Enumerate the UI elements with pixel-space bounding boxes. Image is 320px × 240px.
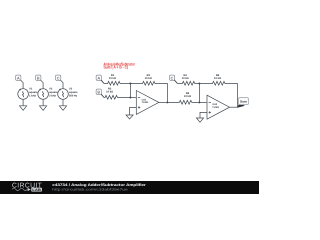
node C flag (second stage) <box>169 75 174 80</box>
feedback resistor R6 <box>199 81 237 107</box>
svg-text:OA1: OA1 <box>142 98 147 101</box>
junction dot R4/R6 <box>198 83 200 85</box>
wire node B to V2 <box>41 80 44 89</box>
svg-text:http://circuitlab.com/c33abf39: http://circuitlab.com/c33abf39e7ue <box>52 187 128 191</box>
ground (V2) <box>40 106 47 111</box>
wire to OA2 inverting input <box>199 101 207 103</box>
ground (OA2) <box>196 118 203 122</box>
svg-text:e43734 / Analog Adder/Subtract: e43734 / Analog Adder/Subtractor Amplifi… <box>52 183 146 187</box>
node B flag (summing network) <box>96 89 101 94</box>
junction dot R5/OA2 <box>198 101 200 103</box>
svg-text:A: A <box>97 76 100 80</box>
svg-text:10 kΩ: 10 kΩ <box>106 90 113 93</box>
V2 source circle <box>38 89 49 100</box>
svg-text:OA2: OA2 <box>212 103 217 106</box>
wire OA2 output <box>230 106 238 108</box>
CircuitLab logo <box>12 183 43 192</box>
svg-text:500 Hz: 500 Hz <box>69 95 78 98</box>
wire node B to R2 <box>101 94 104 97</box>
resistor R5 <box>167 100 199 104</box>
V1 source circle <box>18 89 29 100</box>
ground (V1) <box>20 106 27 111</box>
second summing column <box>198 84 200 103</box>
wire OA1 non-inverting input to ground <box>130 107 137 115</box>
output flag Sum <box>237 98 249 108</box>
wire node C to V3 <box>61 80 64 89</box>
V2 label <box>49 88 58 98</box>
annotation red text <box>104 61 136 69</box>
svg-text:Sum: Sum <box>240 99 247 103</box>
ground (OA1) <box>126 115 133 119</box>
resistor R1 <box>104 81 130 85</box>
voltage source V2 <box>36 75 59 110</box>
wire node A to V1 <box>21 80 24 89</box>
wire OA1 output <box>159 101 168 103</box>
svg-text:2 kHz: 2 kHz <box>49 95 56 98</box>
svg-text:10 kΩ: 10 kΩ <box>214 77 221 80</box>
V3 label <box>69 88 78 98</box>
svg-text:10 kΩ: 10 kΩ <box>109 77 116 80</box>
svg-text:LAB: LAB <box>32 188 41 192</box>
svg-text:10 kΩ: 10 kΩ <box>145 77 152 80</box>
junction dot OA1 output <box>166 101 168 103</box>
op-amp OA2 TL081 <box>207 95 230 119</box>
V3 source circle <box>58 89 69 100</box>
wire node A to R1 <box>101 80 104 83</box>
svg-text:Sum ( A + B - C): Sum ( A + B - C) <box>104 65 129 70</box>
svg-text:1 kHz: 1 kHz <box>29 95 36 98</box>
wire node C to R4 <box>174 80 177 83</box>
svg-text:B: B <box>97 90 100 94</box>
svg-text:C: C <box>57 76 60 80</box>
wire V3 to ground <box>62 99 64 106</box>
node A flag (source 1) <box>16 75 21 80</box>
svg-text:TL081: TL081 <box>142 101 149 104</box>
node C flag (source 3) <box>56 75 61 80</box>
voltage source V1 <box>16 75 39 110</box>
feedback resistor R3 <box>130 81 167 102</box>
resistor R4 <box>178 81 200 85</box>
summing junction column <box>129 84 131 98</box>
svg-text:B: B <box>37 76 40 80</box>
wire V1 to ground <box>22 99 24 106</box>
svg-text:10 kΩ: 10 kΩ <box>184 95 191 98</box>
V1 label <box>29 88 38 98</box>
junction dot row A <box>129 83 131 85</box>
resistor R2 <box>104 95 130 99</box>
ground (V3) <box>59 106 66 111</box>
node B flag (source 2) <box>36 75 41 80</box>
svg-text:10 kΩ: 10 kΩ <box>182 77 189 80</box>
svg-text:TL081: TL081 <box>212 106 219 109</box>
node A flag (summing network) <box>96 75 101 80</box>
footer bar <box>0 181 259 194</box>
wire V2 to ground <box>42 99 44 106</box>
junction dot row B <box>129 97 131 99</box>
op-amp OA1 TL081 <box>136 91 159 115</box>
wire to OA1 inverting input <box>130 97 136 99</box>
svg-text:A: A <box>17 76 20 80</box>
wire OA2 non-inverting input to ground <box>200 112 207 118</box>
voltage source V3 <box>56 75 79 110</box>
svg-text:C: C <box>171 76 174 80</box>
